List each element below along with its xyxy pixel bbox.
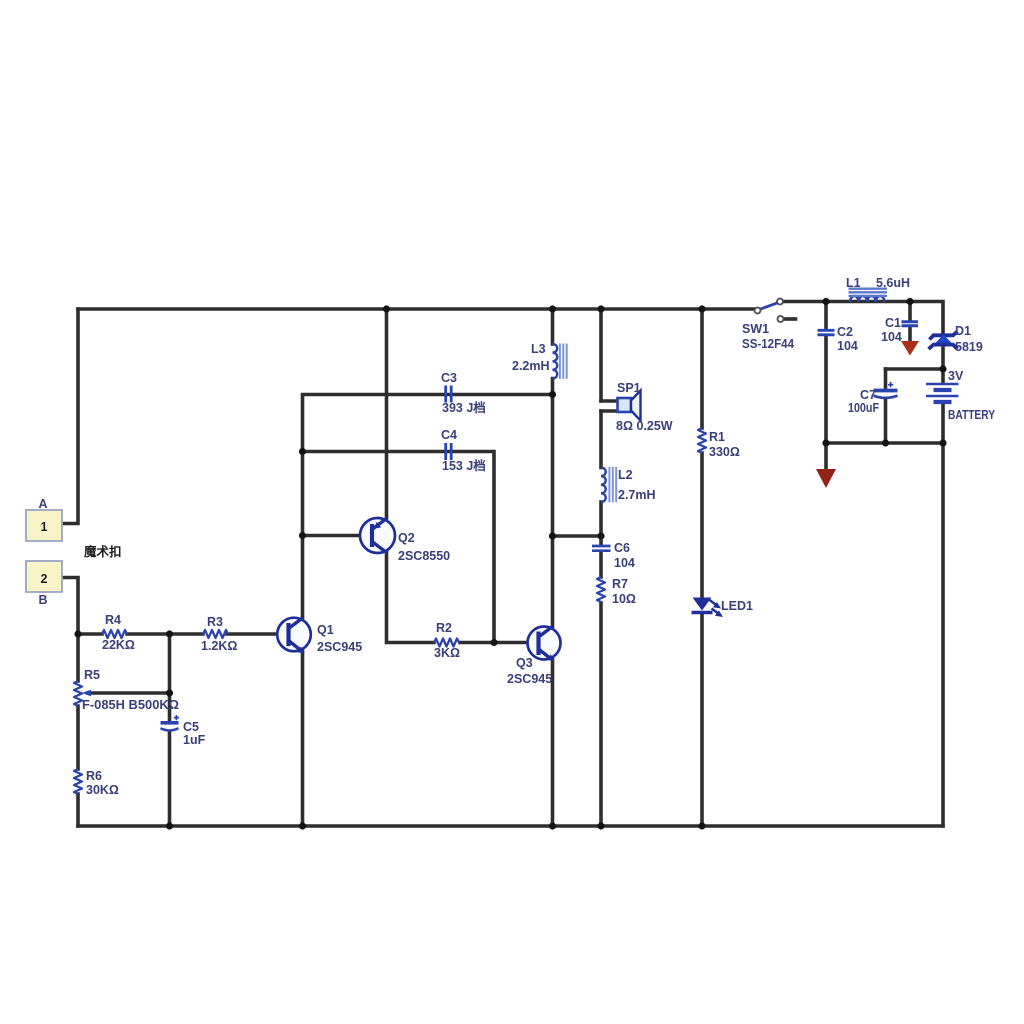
ground at C1 [901, 341, 919, 356]
inductor L3 [553, 344, 567, 379]
wire switch throw2 stub [784, 317, 796, 321]
resistor R3 [203, 630, 228, 638]
capacitor C2 [818, 330, 835, 335]
wire D1 to battery [941, 345, 945, 384]
svg-text:R6: R6 [86, 769, 102, 783]
svg-text:R4: R4 [105, 613, 121, 627]
wire R4 to R3 [127, 632, 203, 636]
node gnd rail battery [939, 439, 946, 446]
wire R5 wiper to C5 node [88, 691, 170, 695]
node top rail SP column [597, 305, 604, 312]
resistor R1 [698, 428, 706, 453]
wire C2 column upper [824, 302, 828, 329]
svg-text:5819: 5819 [955, 340, 983, 354]
wire C2 column lower [824, 337, 828, 444]
inductor L1 [849, 289, 888, 302]
node Q3 base R2 [490, 639, 497, 646]
node L2 column link [597, 532, 604, 539]
wire connector1 to top rail riser [62, 309, 78, 524]
wire C1 stub upper [908, 302, 912, 321]
node gnd rail C7 [882, 439, 889, 446]
wire C7 column upper [884, 369, 888, 389]
wire LED1 to bottom rail [700, 614, 704, 827]
transistor Q2 [360, 518, 395, 553]
wire C4 line down to Q3 base node [303, 452, 495, 643]
svg-text:10Ω: 10Ω [612, 592, 636, 606]
node top rail R1 column [698, 305, 705, 312]
wire C1 stub lower [908, 327, 912, 341]
node gnd rail C2 [822, 439, 829, 446]
wire speaker column top [599, 309, 603, 401]
svg-text:C1: C1 [885, 316, 901, 330]
resistor R2 [434, 639, 459, 647]
svg-text:C7: C7 [860, 388, 876, 402]
diode D1 [929, 331, 958, 349]
svg-text:104: 104 [614, 556, 635, 570]
svg-text:30KΩ: 30KΩ [86, 783, 119, 797]
wire connector2 drop to R4 node [62, 578, 78, 682]
node bottom Q3 [549, 822, 556, 829]
node R4 left [74, 630, 81, 637]
wire R4 left lead [78, 632, 102, 636]
transistor Q3 [528, 627, 561, 662]
svg-text:L3: L3 [531, 342, 546, 356]
svg-text:SW1: SW1 [742, 322, 769, 336]
svg-text:330Ω: 330Ω [709, 445, 740, 459]
svg-text:Q3: Q3 [516, 656, 533, 670]
svg-text:2.2mH: 2.2mH [512, 359, 550, 373]
node bottom R7 [597, 822, 604, 829]
svg-text:8Ω 0.25W: 8Ω 0.25W [616, 419, 673, 433]
wire Q1 emitter to bottom rail [301, 652, 305, 827]
svg-text:F-085H B500KΩ: F-085H B500KΩ [82, 698, 179, 712]
wire L3 to Q3 collector [551, 379, 555, 627]
speaker SP1 [618, 391, 641, 421]
node top rail L3 column [549, 305, 556, 312]
node rail C1 [906, 298, 913, 305]
node wiper C5 [166, 689, 173, 696]
wire node L3-L2 cross link [553, 534, 602, 538]
wire bottom rail [78, 824, 943, 828]
wire ground link rail [826, 441, 943, 445]
svg-text:C3: C3 [441, 371, 457, 385]
ground at C2 rail [816, 469, 836, 488]
svg-text:R1: R1 [709, 430, 725, 444]
node bottom Q1 [299, 822, 306, 829]
node Q2 base [299, 532, 306, 539]
svg-text:22KΩ: 22KΩ [102, 638, 135, 652]
node C3 right [549, 391, 556, 398]
capacitor C6 [592, 546, 611, 551]
wire battery to bottom rail [941, 404, 945, 827]
wire speaker to L2 [599, 411, 603, 468]
wire R3 to Q1 base [227, 632, 283, 636]
svg-text:R5: R5 [84, 668, 100, 682]
svg-text:Q1: Q1 [317, 623, 334, 637]
resistor R7 [597, 577, 605, 602]
svg-text:104: 104 [881, 330, 902, 344]
svg-text:L2: L2 [618, 468, 633, 482]
wire R1 to LED1 [700, 453, 704, 597]
svg-text:魔术扣: 魔术扣 [84, 544, 122, 559]
svg-text:A: A [38, 497, 47, 511]
svg-text:2SC945: 2SC945 [507, 672, 552, 686]
svg-text:3KΩ: 3KΩ [434, 646, 460, 660]
transistor Q1 [277, 618, 311, 654]
wire C7 top link [886, 367, 944, 371]
svg-text:2SC8550: 2SC8550 [398, 549, 450, 563]
node top rail Q2 column [383, 305, 390, 312]
wire C7 column lower [884, 399, 888, 444]
wire R1 column top [700, 309, 704, 428]
potentiometer R5 wiper arrow [82, 690, 91, 697]
svg-text:C4: C4 [441, 428, 457, 442]
wire C5 column lower [168, 732, 172, 827]
svg-text:SS-12F44: SS-12F44 [742, 337, 794, 351]
wire R7 to bottom rail [599, 603, 603, 826]
wire C3 line and Q1 collector column [303, 395, 553, 618]
svg-text:100uF: 100uF [848, 401, 879, 415]
svg-text:3V: 3V [948, 369, 964, 383]
capacitor C4 [446, 443, 452, 460]
svg-text:Q2: Q2 [398, 531, 415, 545]
svg-text:2SC945: 2SC945 [317, 640, 362, 654]
svg-text:C6: C6 [614, 541, 630, 555]
node R4 right C5 column [166, 630, 173, 637]
capacitor C7 [874, 382, 898, 398]
potentiometer R5 [74, 681, 82, 706]
capacitor C1 [902, 322, 919, 326]
switch SW1 [755, 299, 784, 323]
wire speaker bottom stub [601, 409, 618, 413]
svg-text:L1: L1 [846, 276, 861, 290]
wire top rail [78, 307, 754, 311]
wire R2 to Q3 base [460, 641, 533, 645]
connector pad 1 [26, 510, 62, 541]
svg-text:R7: R7 [612, 577, 628, 591]
wire Q2 base lead [303, 534, 367, 538]
wire R6 to bottom rail [76, 794, 80, 826]
wire switch to D1 top [782, 302, 943, 334]
svg-text:SP1: SP1 [617, 381, 641, 395]
resistor R4 [102, 630, 127, 638]
svg-text:C5: C5 [183, 720, 199, 734]
svg-text:BATTERY: BATTERY [948, 408, 996, 422]
svg-text:5.6uH: 5.6uH [876, 276, 910, 290]
node C4 left [299, 448, 306, 455]
wire Q2 emitter column [385, 309, 389, 518]
wire R5 to R6 segment [76, 706, 80, 769]
svg-text:LED1: LED1 [721, 599, 753, 613]
node rail C2 [822, 298, 829, 305]
svg-text:1: 1 [41, 520, 48, 534]
node D1 battery C7 [939, 365, 946, 372]
svg-text:104: 104 [837, 339, 858, 353]
svg-text:393 J档: 393 J档 [442, 400, 486, 415]
wire L3 top lead [551, 309, 555, 344]
wire Q3 emitter to bottom rail [551, 660, 555, 827]
svg-text:B: B [38, 593, 47, 607]
inductor L2 [601, 467, 616, 502]
node bottom C5 [166, 822, 173, 829]
resistor R6 [74, 769, 82, 794]
node bottom LED [698, 822, 705, 829]
wire Q2 collector to R2 [387, 553, 435, 643]
svg-text:2: 2 [41, 572, 48, 586]
wire C6 to R7 [599, 553, 603, 578]
svg-text:1.2KΩ: 1.2KΩ [201, 639, 237, 653]
wire ground stub left [824, 444, 828, 469]
connector pad 2 [26, 561, 62, 592]
node L3 column link [549, 532, 556, 539]
LED LED1 [692, 598, 724, 618]
wire speaker top stub [601, 399, 618, 403]
capacitor C5 [161, 715, 180, 730]
svg-text:2.7mH: 2.7mH [618, 488, 656, 502]
svg-text:D1: D1 [955, 324, 971, 338]
wire C5 column upper [168, 634, 172, 722]
wire L2 to C6 [599, 502, 603, 544]
capacitor C3 [446, 386, 452, 403]
battery BT1 3V [926, 384, 959, 402]
svg-text:153 J档: 153 J档 [442, 458, 486, 473]
svg-text:R3: R3 [207, 615, 223, 629]
svg-text:C2: C2 [837, 325, 853, 339]
svg-text:R2: R2 [436, 621, 452, 635]
svg-text:1uF: 1uF [183, 733, 206, 747]
